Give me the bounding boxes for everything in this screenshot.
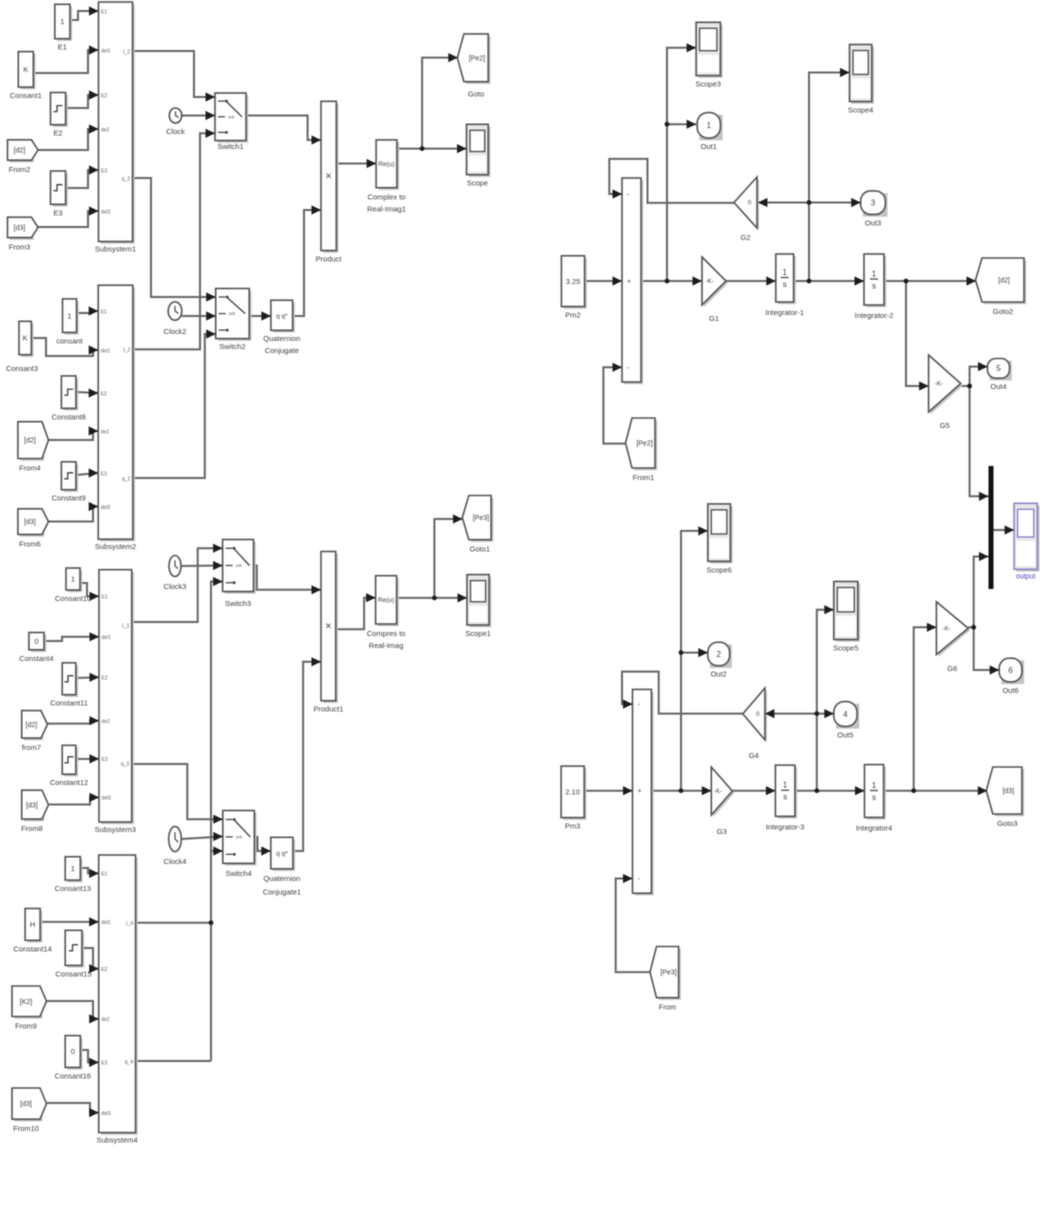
svg-text:From8: From8 bbox=[21, 824, 43, 833]
svg-text:Scope1: Scope1 bbox=[465, 629, 490, 638]
svg-text:I_3: I_3 bbox=[122, 623, 129, 629]
svg-text:Quaternion: Quaternion bbox=[263, 334, 300, 343]
svg-text:s: s bbox=[872, 282, 876, 291]
svg-text:q_2: q_2 bbox=[122, 176, 131, 182]
svg-text:del3: del3 bbox=[101, 1111, 111, 1117]
svg-text:q_4: q_4 bbox=[125, 1059, 134, 1065]
svg-text:q_2: q_2 bbox=[122, 476, 131, 482]
svg-text:Clock: Clock bbox=[166, 127, 185, 136]
svg-text:G5: G5 bbox=[940, 421, 950, 430]
svg-text:1: 1 bbox=[60, 17, 64, 26]
svg-text:q q*: q q* bbox=[276, 313, 288, 320]
svg-text:Integrator4: Integrator4 bbox=[856, 823, 892, 832]
svg-text:Integrator-1: Integrator-1 bbox=[765, 308, 804, 317]
svg-text:Real-Imag: Real-Imag bbox=[369, 641, 404, 650]
svg-text:de2: de2 bbox=[101, 1017, 110, 1023]
svg-text:del1: del1 bbox=[102, 635, 112, 641]
svg-text:Constant4: Constant4 bbox=[19, 654, 53, 663]
svg-text:E2: E2 bbox=[53, 129, 62, 138]
svg-text:Out6: Out6 bbox=[1002, 686, 1018, 695]
svg-text:[d3]: [d3] bbox=[26, 802, 38, 809]
svg-text:Product: Product bbox=[316, 255, 343, 264]
svg-text:[d2]: [d2] bbox=[24, 438, 36, 445]
svg-text:G6: G6 bbox=[947, 664, 957, 673]
svg-text:1: 1 bbox=[872, 781, 877, 790]
svg-text:E1: E1 bbox=[101, 872, 107, 878]
svg-text:From6: From6 bbox=[19, 539, 41, 548]
svg-text:[d3]: [d3] bbox=[14, 225, 26, 232]
svg-text:Subsystem3: Subsystem3 bbox=[95, 825, 136, 834]
svg-text:Constant14: Constant14 bbox=[13, 944, 51, 953]
svg-text:2.10: 2.10 bbox=[565, 788, 580, 797]
svg-text:5: 5 bbox=[996, 364, 1001, 373]
svg-text:I_4: I_4 bbox=[126, 921, 133, 927]
svg-text:[Pe2]: [Pe2] bbox=[636, 441, 652, 448]
svg-text:Scope: Scope bbox=[467, 179, 488, 188]
svg-text:×: × bbox=[325, 170, 331, 182]
svg-text:Product1: Product1 bbox=[313, 705, 343, 714]
svg-text:Out1: Out1 bbox=[701, 142, 717, 151]
svg-text:del1: del1 bbox=[101, 348, 111, 354]
svg-text:Switch1: Switch1 bbox=[217, 142, 243, 151]
svg-text:1: 1 bbox=[67, 311, 71, 320]
svg-text:q q*: q q* bbox=[276, 851, 288, 858]
svg-text:de2: de2 bbox=[102, 719, 111, 725]
svg-text:E2: E2 bbox=[102, 676, 108, 682]
svg-text:1: 1 bbox=[872, 270, 877, 279]
svg-text:From4: From4 bbox=[19, 464, 41, 473]
svg-text:de2: de2 bbox=[101, 127, 110, 133]
svg-text:1: 1 bbox=[782, 268, 787, 277]
svg-text:E3: E3 bbox=[53, 208, 62, 217]
svg-text:[d2]: [d2] bbox=[998, 278, 1010, 285]
svg-text:Scope6: Scope6 bbox=[706, 565, 731, 574]
svg-text:Consant13: Consant13 bbox=[55, 884, 91, 893]
svg-text:Real-Imag1: Real-Imag1 bbox=[367, 205, 406, 214]
svg-text:Out3: Out3 bbox=[865, 218, 881, 227]
svg-text:+: + bbox=[638, 788, 642, 795]
svg-text:Clock2: Clock2 bbox=[164, 327, 187, 336]
svg-text:Subsystem1: Subsystem1 bbox=[95, 245, 136, 254]
svg-text:Subsystem4: Subsystem4 bbox=[96, 1136, 137, 1145]
svg-text:Pm2: Pm2 bbox=[565, 311, 580, 320]
svg-text:Switch3: Switch3 bbox=[225, 599, 251, 608]
svg-text:Clock3: Clock3 bbox=[164, 582, 187, 591]
svg-text:Scope5: Scope5 bbox=[833, 644, 858, 653]
svg-text:1: 1 bbox=[71, 864, 75, 873]
svg-text:Goto3: Goto3 bbox=[997, 819, 1017, 828]
svg-text:E3: E3 bbox=[101, 1061, 107, 1067]
svg-text:[d3]: [d3] bbox=[1002, 788, 1014, 795]
svg-text:E1: E1 bbox=[101, 9, 107, 15]
svg-text:Out4: Out4 bbox=[990, 382, 1006, 391]
svg-text:E2: E2 bbox=[101, 391, 107, 397]
svg-text:×: × bbox=[325, 621, 331, 633]
svg-text:consant: consant bbox=[56, 336, 83, 345]
svg-text:Re(u): Re(u) bbox=[378, 161, 394, 168]
svg-text:Conjugate: Conjugate bbox=[265, 346, 299, 355]
svg-text:q_3: q_3 bbox=[121, 761, 130, 767]
svg-text:Switch4: Switch4 bbox=[225, 869, 251, 878]
svg-text:K: K bbox=[23, 334, 28, 343]
svg-text:Out2: Out2 bbox=[711, 670, 727, 679]
svg-text:E1: E1 bbox=[101, 309, 107, 315]
svg-text:[d2]: [d2] bbox=[26, 722, 38, 729]
svg-text:Consant1: Consant1 bbox=[10, 91, 42, 100]
svg-text:Pm3: Pm3 bbox=[565, 822, 580, 831]
svg-text:del1: del1 bbox=[101, 920, 111, 926]
svg-text:>=: >= bbox=[236, 835, 242, 841]
svg-text:From1: From1 bbox=[633, 473, 655, 482]
svg-text:From2: From2 bbox=[9, 165, 31, 174]
svg-text:del3: del3 bbox=[101, 505, 111, 511]
svg-text:E3: E3 bbox=[102, 757, 108, 763]
svg-text:Quaternion: Quaternion bbox=[263, 874, 300, 883]
svg-text:output: output bbox=[1016, 574, 1036, 581]
svg-text:de2: de2 bbox=[101, 429, 110, 435]
svg-text:I_2: I_2 bbox=[123, 348, 130, 354]
svg-text:[d3]: [d3] bbox=[24, 519, 36, 526]
svg-text:Scope3: Scope3 bbox=[695, 80, 720, 89]
svg-text:From: From bbox=[659, 1003, 677, 1012]
svg-text:Integrator-3: Integrator-3 bbox=[766, 822, 805, 831]
svg-text:del1: del1 bbox=[101, 48, 111, 54]
svg-text:Consant16: Consant16 bbox=[55, 1071, 91, 1080]
svg-text:From3: From3 bbox=[9, 243, 31, 252]
svg-text:6: 6 bbox=[1008, 666, 1013, 675]
svg-text:Goto2: Goto2 bbox=[993, 307, 1013, 316]
svg-text:s: s bbox=[783, 793, 787, 802]
svg-text:E3: E3 bbox=[101, 168, 107, 174]
svg-text:H: H bbox=[30, 920, 35, 929]
svg-text:Conjugate1: Conjugate1 bbox=[263, 888, 301, 897]
svg-text:Consant10: Consant10 bbox=[55, 594, 91, 603]
svg-text:G2: G2 bbox=[740, 233, 750, 242]
svg-text:E2: E2 bbox=[101, 967, 107, 973]
svg-text:from7: from7 bbox=[22, 743, 41, 752]
svg-text:Constant8: Constant8 bbox=[52, 412, 86, 421]
svg-text:>=: >= bbox=[228, 115, 234, 121]
svg-text:3.25: 3.25 bbox=[566, 277, 581, 286]
svg-text:I_2: I_2 bbox=[123, 49, 130, 55]
svg-text:Out5: Out5 bbox=[837, 730, 853, 739]
svg-text:>=: >= bbox=[236, 564, 242, 570]
svg-text:K: K bbox=[23, 65, 28, 74]
svg-text:Consant15: Consant15 bbox=[55, 969, 91, 978]
svg-text:3: 3 bbox=[871, 199, 876, 208]
svg-text:[Pe2]: [Pe2] bbox=[469, 55, 485, 62]
svg-text:G4: G4 bbox=[749, 751, 759, 760]
svg-text:Consant3: Consant3 bbox=[6, 364, 38, 373]
svg-text:[d3]: [d3] bbox=[20, 1101, 32, 1108]
svg-text:Constant9: Constant9 bbox=[52, 494, 86, 503]
svg-text:Scope4: Scope4 bbox=[848, 106, 873, 115]
svg-text:Compres to: Compres to bbox=[367, 629, 406, 638]
svg-text:E2: E2 bbox=[101, 93, 107, 99]
svg-text:Switch2: Switch2 bbox=[219, 342, 245, 351]
svg-text:[Pe3]: [Pe3] bbox=[473, 515, 489, 522]
svg-text:Clock4: Clock4 bbox=[164, 857, 187, 866]
svg-text:4: 4 bbox=[843, 710, 848, 719]
svg-text:E1: E1 bbox=[102, 595, 108, 601]
svg-text:Re(u): Re(u) bbox=[378, 597, 394, 604]
svg-text:G1: G1 bbox=[709, 314, 719, 323]
svg-text:G3: G3 bbox=[717, 827, 727, 836]
svg-text:[Pe3]: [Pe3] bbox=[660, 970, 676, 977]
svg-text:>=: >= bbox=[229, 312, 235, 318]
svg-text:-K-: -K- bbox=[714, 789, 722, 795]
svg-text:Goto1: Goto1 bbox=[470, 545, 490, 554]
svg-text:Goto: Goto bbox=[468, 90, 484, 99]
svg-text:0: 0 bbox=[34, 637, 38, 646]
svg-text:Constant11: Constant11 bbox=[50, 699, 88, 708]
svg-text:1: 1 bbox=[71, 575, 75, 584]
svg-text:Constant12: Constant12 bbox=[50, 778, 88, 787]
svg-text:E3: E3 bbox=[101, 471, 107, 477]
svg-text:-K-: -K- bbox=[706, 279, 714, 285]
svg-text:1: 1 bbox=[707, 121, 712, 130]
svg-text:0: 0 bbox=[71, 1047, 75, 1056]
svg-text:[K2]: [K2] bbox=[20, 999, 33, 1006]
svg-text:-K-: -K- bbox=[943, 626, 951, 632]
svg-text:del3: del3 bbox=[102, 796, 112, 802]
svg-text:Subsystem2: Subsystem2 bbox=[95, 542, 136, 551]
svg-text:Complex to: Complex to bbox=[368, 193, 406, 202]
svg-text:-K-: -K- bbox=[935, 382, 943, 388]
svg-text:1: 1 bbox=[783, 781, 788, 790]
svg-text:From10: From10 bbox=[13, 1124, 39, 1133]
svg-text:From9: From9 bbox=[15, 1022, 37, 1031]
svg-text:+: + bbox=[627, 279, 631, 286]
svg-text:del3: del3 bbox=[101, 209, 111, 215]
svg-text:E1: E1 bbox=[58, 43, 67, 52]
svg-text:[d2]: [d2] bbox=[14, 148, 26, 155]
svg-text:s: s bbox=[872, 793, 876, 802]
svg-text:Integrator-2: Integrator-2 bbox=[855, 311, 894, 320]
svg-text:2: 2 bbox=[716, 650, 721, 659]
svg-text:s: s bbox=[783, 280, 787, 289]
